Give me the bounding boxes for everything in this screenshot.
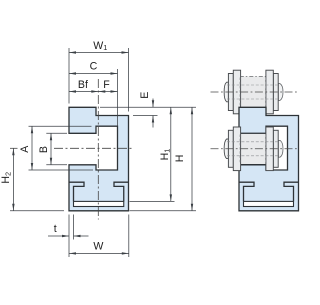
- middle chain inner plate right: [266, 127, 273, 171]
- dimension B: [50, 133, 52, 165]
- dimension H1: [170, 107, 172, 201]
- mounting slot (right view): [244, 201, 294, 206]
- svg-text:E: E: [139, 92, 151, 99]
- svg-text:C: C: [90, 61, 98, 73]
- upper chain pin cap right: [278, 84, 283, 101]
- upper chain pin cap left: [224, 82, 228, 102]
- svg-text:F: F: [103, 79, 110, 91]
- centerline stub for H2: [10, 147, 18, 149]
- upper chain inner plate right: [266, 70, 273, 114]
- middle chain outer plate left: [228, 130, 233, 167]
- svg-text:t: t: [54, 223, 57, 235]
- mounting channel hooks (right view): [239, 182, 299, 201]
- dimension H2: [12, 148, 14, 211]
- horizontal chain centerline: [54, 147, 134, 149]
- dimension W: [69, 252, 129, 254]
- svg-text:W: W: [93, 240, 103, 252]
- upper chain roller edge hidden lines: [240, 78, 266, 107]
- dimension t: [48, 235, 69, 237]
- guide profile silhouette (right view): [239, 107, 299, 211]
- dimension F: [98, 91, 117, 93]
- dimension Bf: [69, 91, 98, 93]
- middle chain pin cap left: [224, 139, 228, 159]
- upper chain inner plate left: [233, 70, 240, 114]
- middle chain pin cap right: [278, 140, 283, 157]
- middle chain roller edge hidden lines: [240, 135, 266, 164]
- mounting slot: [74, 201, 124, 206]
- svg-text:Bf: Bf: [78, 79, 88, 91]
- middle chain outer plate right: [273, 130, 278, 167]
- vertical centerline: [97, 79, 99, 220]
- svg-text:B: B: [38, 146, 50, 153]
- middle chain inner plate left: [233, 127, 240, 171]
- extension lines: [10, 48, 196, 257]
- guide profile cross-section: [69, 107, 129, 211]
- dimension C: [69, 73, 118, 75]
- mounting channel hooks: [69, 182, 129, 201]
- dimension A: [31, 126, 33, 170]
- upper chain centerline: [211, 91, 298, 93]
- svg-text:H: H: [174, 155, 186, 163]
- middle chain roller (in guide groove): [240, 134, 267, 165]
- svg-text:A: A: [19, 145, 31, 153]
- upper chain outer plate right: [273, 74, 278, 111]
- dimension E: [152, 99, 154, 108]
- upper chain pin hidden lines: [227, 85, 278, 99]
- middle chain pin hidden lines: [227, 142, 278, 156]
- upper chain outer plate left: [228, 74, 233, 111]
- dimension W1: [69, 52, 129, 54]
- middle chain centerline: [211, 148, 300, 150]
- upper chain roller (hidden edges dashed): [240, 76, 267, 107]
- dimension H: [191, 107, 193, 211]
